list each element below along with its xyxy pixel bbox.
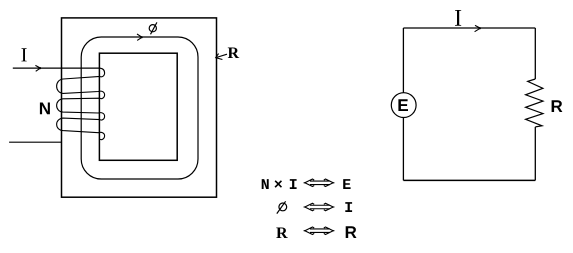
label R reluctance (bold): [228, 48, 239, 59]
input wire: [13, 67, 100, 69]
flux arrow: [137, 34, 142, 40]
right wire upper: [534, 28, 536, 79]
label R (analogy row 3): [346, 226, 357, 238]
source E circle: [391, 93, 416, 118]
reluctance pointer arrow: [216, 54, 227, 60]
flux label phi: [149, 22, 157, 34]
label E (analogy row 1): [343, 179, 350, 189]
right wire lower: [534, 127, 536, 180]
label I (analogy row 2): [345, 202, 352, 212]
core outer rectangle: [62, 18, 217, 197]
core inner window rectangle: [99, 53, 177, 160]
coil return wire: [9, 141, 61, 143]
label N: [40, 103, 50, 115]
multiply sign (analogy row 1): [275, 180, 283, 188]
left wire upper: [402, 28, 404, 93]
input wire arrowhead: [35, 65, 40, 71]
left wire lower: [402, 118, 404, 181]
label I (analogy row 1): [290, 179, 297, 189]
coil N turns: [57, 68, 105, 140]
double arrow row1: [304, 179, 335, 187]
label I (circuit): [455, 10, 461, 26]
double arrow row3: [304, 227, 335, 235]
top wire: [403, 27, 535, 29]
label E: [398, 99, 408, 111]
label phi (analogy row 2): [277, 201, 287, 213]
flux path (rounded): [81, 37, 198, 179]
label N (analogy row 1): [262, 179, 269, 189]
label R reluctance bold (analogy row 3): [276, 228, 287, 239]
top wire arrowhead: [475, 25, 481, 31]
double arrow row2: [304, 203, 335, 211]
label I (left): [21, 48, 26, 61]
circuit bottom wire: [403, 179, 535, 181]
label R (circuit): [552, 100, 563, 112]
resistor R zigzag: [526, 79, 543, 127]
